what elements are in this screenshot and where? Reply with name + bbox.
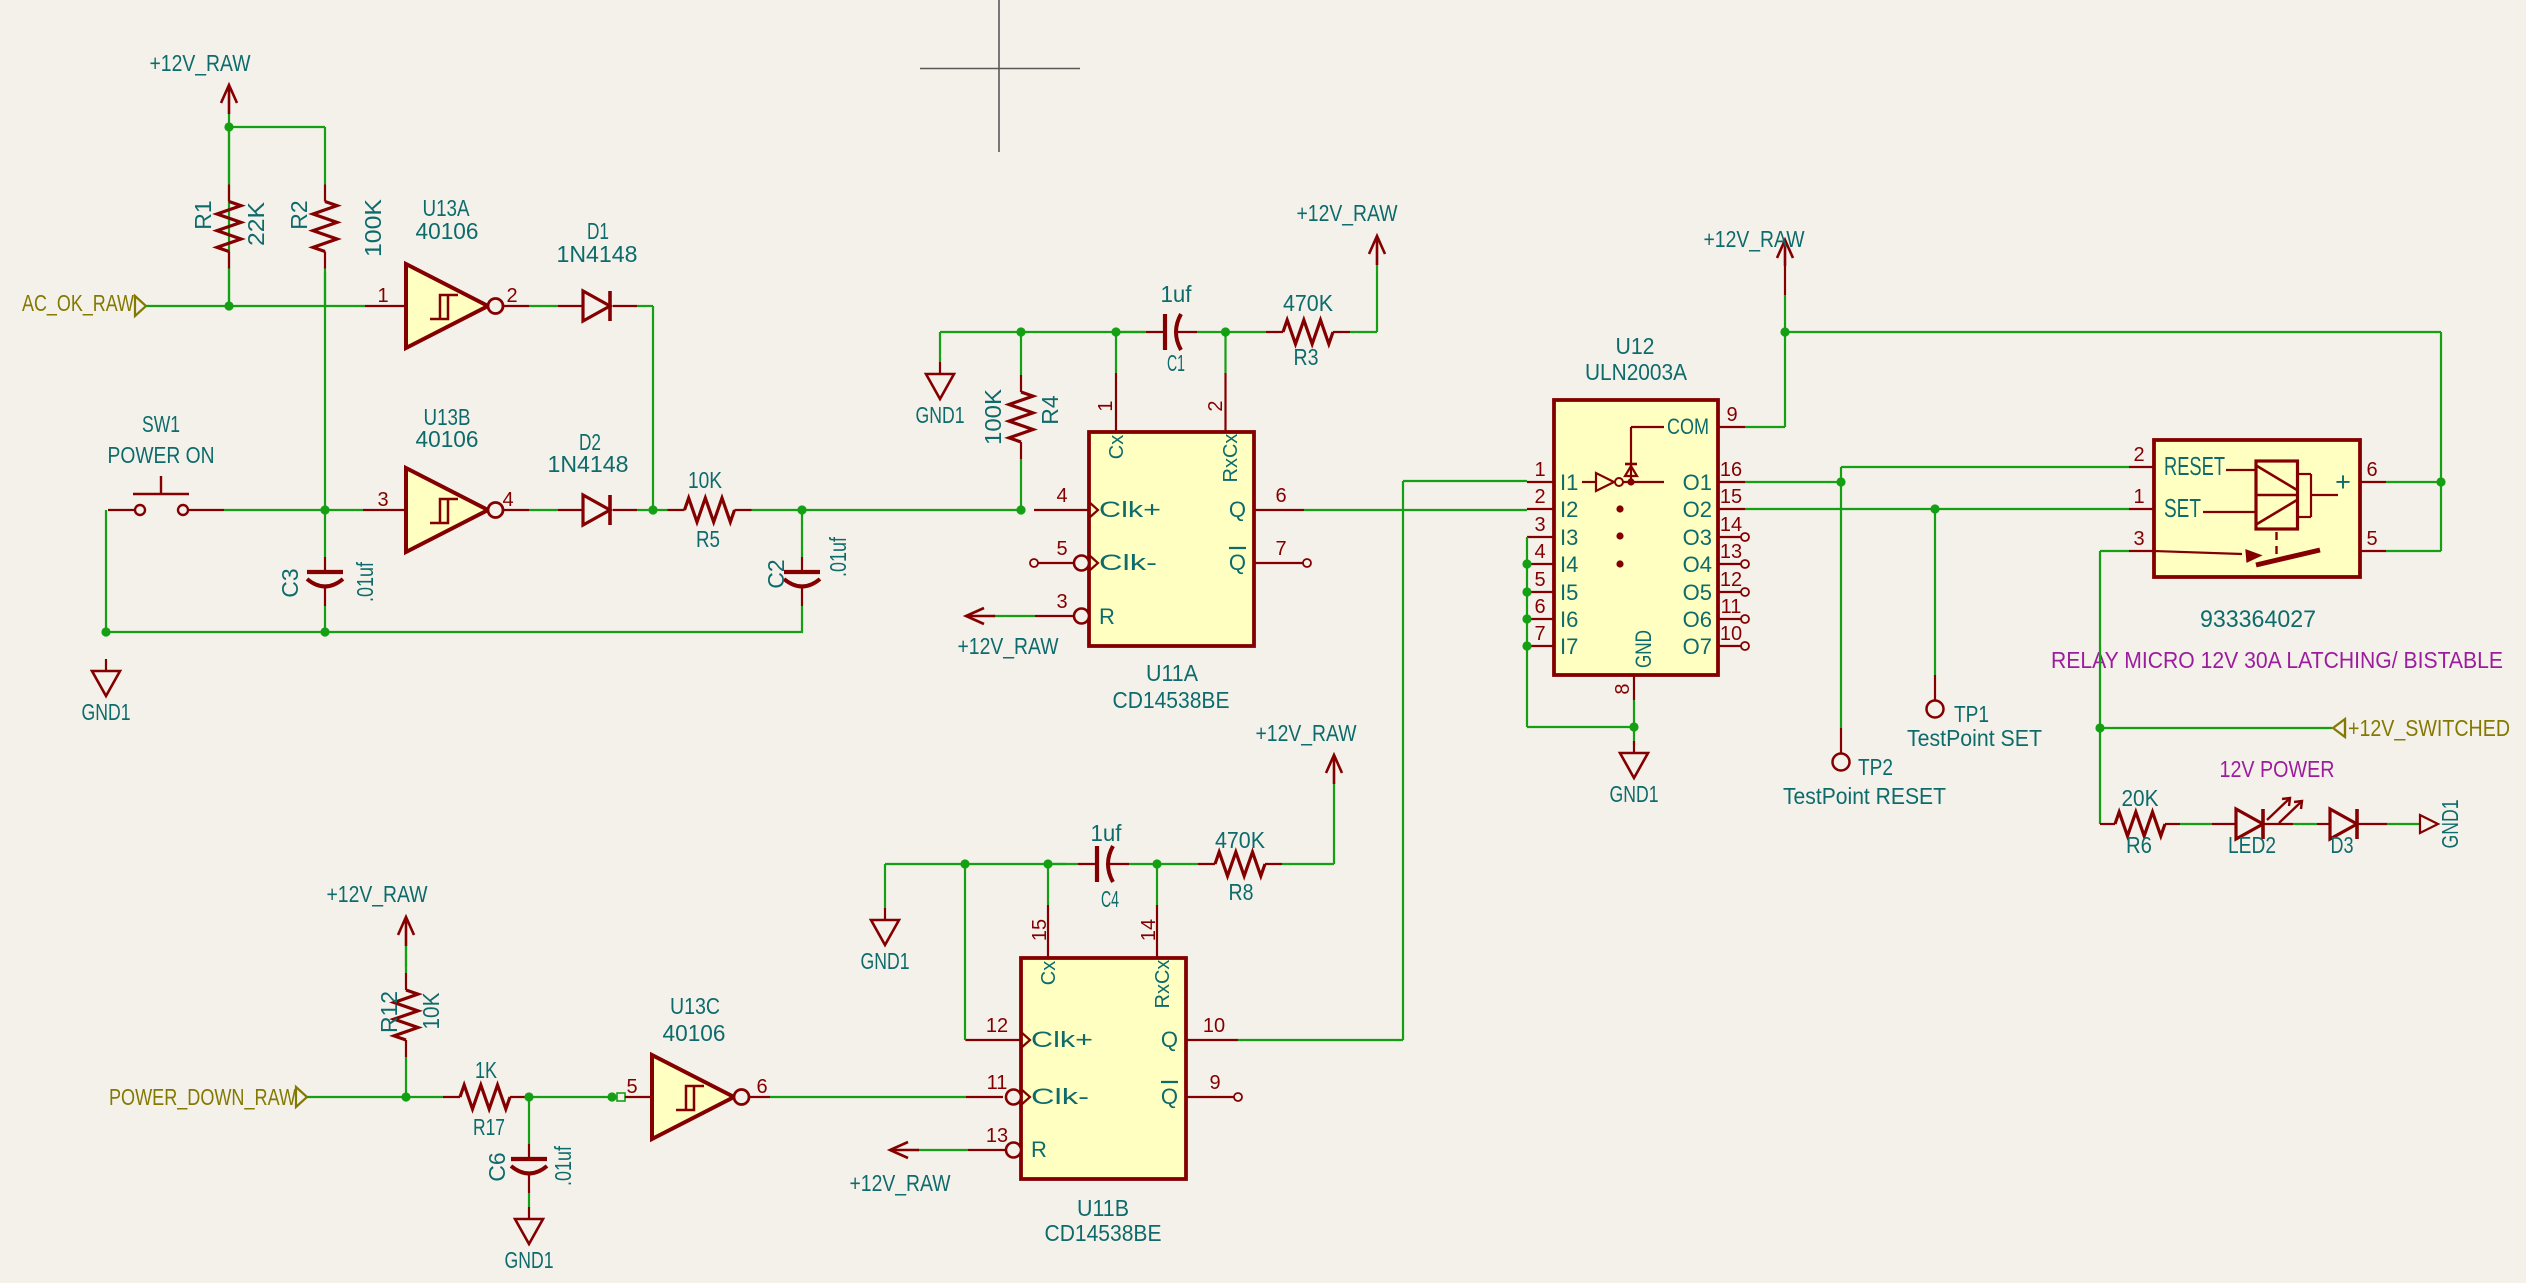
svg-text:SW1: SW1 <box>142 411 180 437</box>
svg-text:C3: C3 <box>277 568 303 597</box>
svg-text:100K: 100K <box>980 388 1006 445</box>
svg-text:6: 6 <box>756 1076 767 1098</box>
svg-text:4: 4 <box>502 489 513 511</box>
svg-text:1: 1 <box>2133 486 2144 508</box>
svg-text:+12V_RAW: +12V_RAW <box>850 1170 951 1196</box>
svg-text:3: 3 <box>377 489 388 511</box>
svg-text:1: 1 <box>1534 459 1545 481</box>
svg-text:POWER ON: POWER ON <box>108 442 215 468</box>
svg-text:CD14538BE: CD14538BE <box>1045 1220 1162 1246</box>
svg-text:8: 8 <box>1612 683 1634 694</box>
svg-text:CD14538BE: CD14538BE <box>1113 687 1230 713</box>
svg-text:GND1: GND1 <box>2437 800 2463 849</box>
svg-text:40106: 40106 <box>416 218 479 244</box>
svg-text:R1: R1 <box>190 200 216 229</box>
svg-text:O3: O3 <box>1683 525 1712 550</box>
svg-text:933364027: 933364027 <box>2200 606 2316 633</box>
svg-text:2: 2 <box>2133 444 2144 466</box>
svg-text:5: 5 <box>2366 528 2377 550</box>
svg-text:470K: 470K <box>1283 290 1334 316</box>
svg-text:GND1: GND1 <box>82 699 131 725</box>
svg-text:Clk+: Clk+ <box>1031 1027 1093 1052</box>
svg-text:GND1: GND1 <box>861 948 910 974</box>
svg-text:4: 4 <box>1056 485 1067 507</box>
svg-text:13: 13 <box>986 1125 1008 1147</box>
svg-text:14: 14 <box>1138 919 1160 941</box>
svg-text:O4: O4 <box>1683 552 1712 577</box>
svg-text:Cx: Cx <box>1106 435 1128 459</box>
svg-text:TestPoint SET: TestPoint SET <box>1907 725 2042 751</box>
svg-text:3: 3 <box>1534 514 1545 536</box>
svg-text:U11A: U11A <box>1146 660 1199 686</box>
svg-text:16: 16 <box>1720 459 1742 481</box>
svg-text:D3: D3 <box>2331 832 2354 858</box>
svg-text:RxCx: RxCx <box>1220 434 1242 483</box>
svg-text:2: 2 <box>506 285 517 307</box>
svg-text:11: 11 <box>987 1072 1008 1094</box>
svg-text:10K: 10K <box>688 467 723 493</box>
svg-text:20K: 20K <box>2122 785 2160 811</box>
svg-text:R6: R6 <box>2126 832 2152 858</box>
svg-text:.01uf: .01uf <box>352 562 378 602</box>
svg-text:R5: R5 <box>696 526 720 552</box>
svg-text:Q: Q <box>1229 550 1246 575</box>
svg-text:5: 5 <box>1056 538 1067 560</box>
svg-text:TP1: TP1 <box>1954 701 1989 727</box>
svg-text:O5: O5 <box>1683 580 1712 605</box>
svg-text:7: 7 <box>1275 538 1286 560</box>
svg-text:I7: I7 <box>1560 634 1578 659</box>
svg-text:GND1: GND1 <box>916 402 965 428</box>
svg-text:C1: C1 <box>1167 350 1185 376</box>
svg-text:GND: GND <box>1631 630 1656 668</box>
svg-text:14: 14 <box>1720 514 1742 536</box>
svg-text:I1: I1 <box>1560 470 1578 495</box>
svg-text:R12: R12 <box>376 991 402 1033</box>
svg-text:10: 10 <box>1720 623 1742 645</box>
svg-text:+12V_SWITCHED: +12V_SWITCHED <box>2348 715 2510 741</box>
svg-text:12: 12 <box>986 1015 1008 1037</box>
svg-text:9: 9 <box>1726 404 1737 426</box>
svg-text:100K: 100K <box>360 198 386 257</box>
svg-text:RELAY MICRO 12V 30A LATCHING/: RELAY MICRO 12V 30A LATCHING/ BISTABLE <box>2051 647 2503 673</box>
svg-text:R: R <box>1099 604 1115 629</box>
svg-text:11: 11 <box>1721 596 1742 618</box>
svg-text:.01uf: .01uf <box>550 1146 576 1186</box>
svg-text:22K: 22K <box>243 201 269 246</box>
svg-text:Q: Q <box>1161 1084 1178 1109</box>
svg-text:U12: U12 <box>1616 333 1655 359</box>
svg-text:Q: Q <box>1161 1027 1178 1052</box>
svg-text:12V POWER: 12V POWER <box>2220 756 2335 782</box>
svg-text:U13C: U13C <box>670 993 720 1019</box>
svg-text:40106: 40106 <box>663 1020 726 1046</box>
svg-text:Cx: Cx <box>1038 961 1060 985</box>
svg-text:O2: O2 <box>1683 497 1712 522</box>
svg-text:40106: 40106 <box>416 426 479 452</box>
svg-text:15: 15 <box>1720 486 1742 508</box>
svg-text:3: 3 <box>1056 591 1067 613</box>
svg-text:ULN2003A: ULN2003A <box>1585 359 1688 385</box>
svg-text:1K: 1K <box>475 1057 498 1083</box>
svg-text:POWER_DOWN_RAW: POWER_DOWN_RAW <box>109 1084 296 1110</box>
svg-text:10: 10 <box>1203 1015 1225 1037</box>
svg-text:R: R <box>1031 1137 1047 1162</box>
svg-text:+: + <box>2335 467 2351 497</box>
svg-text:2: 2 <box>1534 486 1545 508</box>
svg-text:U11B: U11B <box>1077 1195 1129 1221</box>
svg-text:9: 9 <box>1209 1072 1220 1094</box>
svg-text:6: 6 <box>1534 596 1545 618</box>
svg-text:C6: C6 <box>484 1152 510 1181</box>
svg-text:1: 1 <box>1095 400 1117 411</box>
svg-text:6: 6 <box>1275 485 1286 507</box>
svg-text:I2: I2 <box>1560 497 1578 522</box>
svg-text:5: 5 <box>1534 569 1545 591</box>
svg-text:O1: O1 <box>1683 470 1712 495</box>
svg-text:AC_OK_RAW: AC_OK_RAW <box>22 290 134 316</box>
svg-text:1N4148: 1N4148 <box>548 451 629 477</box>
svg-text:1: 1 <box>377 285 388 307</box>
svg-text:+12V_RAW: +12V_RAW <box>327 881 428 907</box>
svg-text:Clk-: Clk- <box>1031 1084 1089 1109</box>
svg-text:O6: O6 <box>1683 607 1712 632</box>
svg-text:1uf: 1uf <box>1161 281 1193 307</box>
svg-text:15: 15 <box>1029 919 1051 941</box>
svg-text:R8: R8 <box>1229 879 1254 905</box>
svg-text:C4: C4 <box>1101 886 1119 912</box>
svg-text:+12V_RAW: +12V_RAW <box>150 50 251 76</box>
svg-text:SET: SET <box>2164 493 2201 523</box>
svg-text:1uf: 1uf <box>1091 820 1123 846</box>
svg-text:12: 12 <box>1720 569 1742 591</box>
svg-text:470K: 470K <box>1215 827 1266 853</box>
svg-text:I5: I5 <box>1560 580 1578 605</box>
svg-text:R17: R17 <box>473 1114 505 1140</box>
svg-text:1N4148: 1N4148 <box>557 241 638 267</box>
svg-text:R2: R2 <box>286 200 312 229</box>
svg-text:+12V_RAW: +12V_RAW <box>1297 200 1398 226</box>
svg-text:I3: I3 <box>1560 525 1578 550</box>
svg-text:I6: I6 <box>1560 607 1578 632</box>
svg-text:.01uf: .01uf <box>825 537 851 577</box>
svg-text:+12V_RAW: +12V_RAW <box>1704 226 1805 252</box>
svg-text:GND1: GND1 <box>505 1247 554 1273</box>
svg-text:C2: C2 <box>763 559 789 588</box>
svg-text:GND1: GND1 <box>1610 781 1659 807</box>
svg-text:I4: I4 <box>1560 552 1578 577</box>
svg-text:TP2: TP2 <box>1858 754 1893 780</box>
svg-text:RxCx: RxCx <box>1152 960 1174 1009</box>
svg-text:10K: 10K <box>418 992 444 1030</box>
svg-text:13: 13 <box>1720 541 1742 563</box>
svg-text:RESET: RESET <box>2164 451 2225 481</box>
svg-text:6: 6 <box>2366 459 2377 481</box>
svg-text:+12V_RAW: +12V_RAW <box>958 633 1059 659</box>
svg-text:R3: R3 <box>1294 344 1319 370</box>
svg-text:Q: Q <box>1229 497 1246 522</box>
svg-text:COM: COM <box>1667 414 1709 439</box>
svg-text:2: 2 <box>1205 400 1227 411</box>
svg-text:LED2: LED2 <box>2228 832 2276 858</box>
svg-text:5: 5 <box>626 1076 637 1098</box>
svg-text:Clk+: Clk+ <box>1099 497 1161 522</box>
svg-text:3: 3 <box>2133 528 2144 550</box>
svg-text:R4: R4 <box>1037 395 1063 425</box>
svg-text:+12V_RAW: +12V_RAW <box>1256 720 1357 746</box>
svg-text:TestPoint RESET: TestPoint RESET <box>1783 783 1946 809</box>
svg-text:7: 7 <box>1534 623 1545 645</box>
svg-text:O7: O7 <box>1683 634 1712 659</box>
svg-text:Clk-: Clk- <box>1099 550 1157 575</box>
svg-text:4: 4 <box>1534 541 1545 563</box>
